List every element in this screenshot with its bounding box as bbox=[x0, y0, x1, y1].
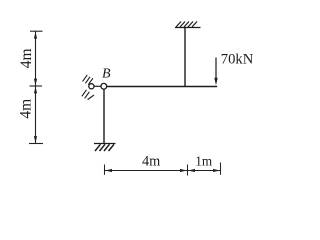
hinge circle at node B bbox=[101, 83, 107, 89]
ground hatching bbox=[95, 144, 114, 151]
svg-text:B: B bbox=[102, 66, 111, 81]
load arrow 70kN bbox=[214, 58, 217, 86]
left vertical dimension line bbox=[29, 31, 43, 143]
vertical hanger member top right bbox=[184, 28, 186, 87]
link bar between hinges bbox=[94, 85, 101, 87]
ground line of bottom support bbox=[94, 143, 116, 145]
svg-text:4m: 4m bbox=[18, 99, 35, 119]
horizontal beam member bbox=[107, 86, 218, 88]
svg-text:1m: 1m bbox=[195, 153, 213, 168]
wall hinge circle bbox=[89, 84, 94, 89]
svg-text:4m: 4m bbox=[142, 154, 160, 170]
ceiling hatching bbox=[176, 22, 197, 28]
bottom horizontal dimension line bbox=[105, 163, 221, 176]
ceiling line of top support bbox=[175, 27, 201, 29]
svg-text:70kN: 70kN bbox=[221, 51, 254, 67]
svg-text:4m: 4m bbox=[18, 48, 35, 68]
wall hatching at left support bbox=[82, 75, 94, 100]
vertical column member below B bbox=[103, 89, 105, 143]
